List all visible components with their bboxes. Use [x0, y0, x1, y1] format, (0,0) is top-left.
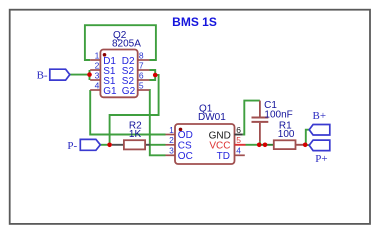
- svg-text:OC: OC: [178, 151, 193, 162]
- pin numbers Q2 right: [139, 50, 144, 90]
- wire S2 to P-: [110, 75, 159, 145]
- resistor R1: [274, 140, 296, 149]
- svg-text:2: 2: [169, 135, 174, 145]
- wire G2 to OC: [150, 90, 166, 155]
- wire D1-D2 top loop: [85, 25, 156, 60]
- port B+: [309, 125, 330, 136]
- ic Q1 DW01: [166, 124, 246, 164]
- svg-text:B+: B+: [313, 110, 327, 122]
- wire G1 to OD: [90, 90, 165, 135]
- svg-text:1: 1: [169, 125, 174, 135]
- resistor R2: [124, 140, 145, 149]
- junction S2 node: [153, 73, 158, 78]
- resistor R2 leads: [112, 144, 124, 146]
- junction P- node: [107, 143, 112, 148]
- svg-text:5: 5: [139, 80, 144, 90]
- wire B- to Q2 pin 3: [70, 74, 90, 76]
- wire P- to junction: [100, 144, 109, 146]
- pin numbers Q2 left: [95, 50, 100, 90]
- wire C1 to R1: [259, 144, 265, 146]
- svg-text:CS: CS: [178, 141, 192, 152]
- junction VCC node 2: [263, 143, 268, 148]
- junction B+/P+ node: [303, 143, 308, 148]
- svg-text:6: 6: [236, 125, 241, 135]
- svg-text:3: 3: [169, 146, 174, 156]
- svg-text:P+: P+: [315, 153, 327, 165]
- wire junction to B+: [306, 130, 309, 145]
- resistor R1 leads: [265, 144, 274, 146]
- port P+: [309, 140, 330, 151]
- svg-text:1K: 1K: [129, 129, 142, 140]
- junction VCC node 1: [257, 143, 262, 148]
- svg-text:1: 1: [95, 50, 100, 60]
- svg-text:G1: G1: [103, 86, 117, 97]
- wire GND to C1 top: [243, 101, 260, 135]
- svg-text:DW01: DW01: [198, 112, 226, 123]
- wire VCC pin5 to C1: [246, 144, 260, 146]
- wire Q2 pin7-pin6 vertical: [150, 70, 156, 80]
- svg-text:P-: P-: [67, 140, 77, 152]
- pin names Q2: [103, 56, 135, 97]
- svg-text:G2: G2: [122, 86, 136, 97]
- svg-text:BMS 1S: BMS 1S: [172, 15, 217, 29]
- svg-text:6: 6: [139, 70, 144, 80]
- wire R2 to CS: [150, 144, 165, 146]
- svg-text:B-: B-: [37, 70, 48, 82]
- port P-: [80, 139, 100, 150]
- svg-text:100nF: 100nF: [264, 110, 292, 121]
- svg-text:7: 7: [139, 60, 144, 70]
- ic Q2 8205A: [90, 50, 149, 98]
- pin names Q1 left: [178, 130, 193, 162]
- pin numbers Q1 left: [169, 125, 174, 156]
- svg-text:5: 5: [236, 135, 241, 145]
- svg-text:4: 4: [95, 80, 100, 90]
- svg-text:100: 100: [278, 129, 295, 140]
- svg-text:8: 8: [139, 50, 144, 60]
- svg-text:TD: TD: [217, 151, 230, 162]
- capacitor C1: [252, 101, 269, 145]
- svg-text:3: 3: [95, 70, 100, 80]
- svg-text:2: 2: [95, 60, 100, 70]
- svg-text:8205A: 8205A: [112, 38, 141, 49]
- wire Q2 pin2-pin3 vertical: [89, 70, 91, 80]
- port B-: [50, 69, 70, 80]
- svg-text:4: 4: [236, 146, 241, 156]
- wire junction to P+: [305, 144, 309, 146]
- svg-text:VCC: VCC: [209, 141, 230, 152]
- junction B- node: [87, 72, 92, 77]
